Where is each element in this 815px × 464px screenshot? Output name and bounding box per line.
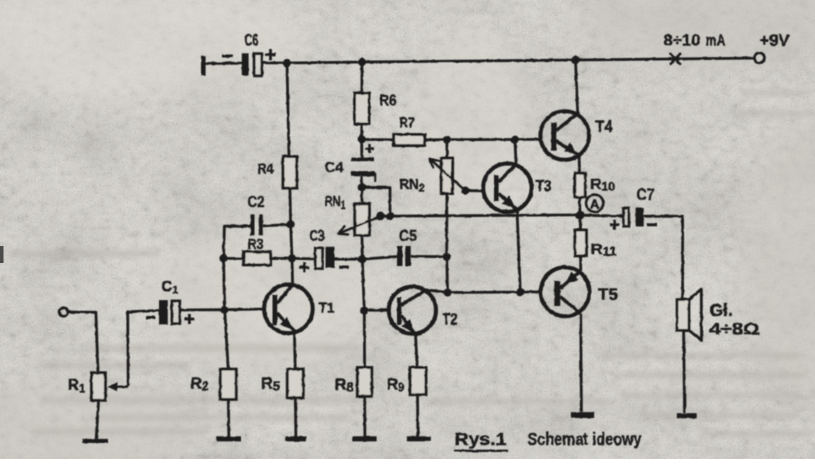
wire: R10 to output node — [578, 197, 581, 215]
svg-text:+9V: +9V — [760, 32, 790, 50]
svg-text:8÷10: 8÷10 — [664, 33, 701, 50]
wire: rail to R6 — [360, 62, 363, 93]
potentiometer R1 — [92, 373, 106, 401]
capacitor C2 — [251, 214, 255, 235]
svg-text:T4: T4 — [596, 117, 613, 136]
capacitor C6 — [242, 53, 249, 75]
svg-text:R3: R3 — [248, 236, 264, 253]
node: RN2 wiper / T3 base — [461, 187, 469, 195]
wire: C2 left leg — [224, 226, 251, 258]
svg-text:T3: T3 — [536, 178, 552, 195]
svg-text:C7: C7 — [637, 186, 655, 204]
wire: T1 base — [225, 308, 265, 312]
wire: T2 base — [364, 309, 389, 312]
break mark 8÷10mA — [670, 53, 682, 65]
transistor T4 — [540, 111, 589, 160]
node: rail / R6 — [358, 58, 366, 66]
wire: C1 to T1 base — [180, 308, 225, 311]
svg-text:R4: R4 — [258, 161, 275, 178]
node: T3 collector / T4 base line — [511, 136, 519, 144]
transistor T3 — [483, 164, 531, 212]
wire: T2 collector — [426, 290, 447, 293]
node: R3 left / T1 base leg — [219, 254, 227, 262]
node: rail / R4 — [283, 59, 291, 67]
ground (R8) — [353, 436, 377, 441]
node: T2 base — [360, 306, 368, 314]
capacitor C3 — [315, 248, 322, 269]
wiper of RN2 — [430, 159, 466, 191]
svg-text:R6: R6 — [380, 93, 397, 110]
speaker Gł. 4÷8Ω — [677, 300, 689, 331]
wire: rail to T4 collector — [576, 60, 578, 114]
node: RN1 wiper / feedback line — [376, 212, 384, 220]
svg-text:Schemat ideowy: Schemat ideowy — [528, 429, 642, 449]
node: C5 / RN2 leg — [443, 253, 451, 261]
terminal +9V — [754, 53, 764, 63]
svg-text:4÷8Ω: 4÷8Ω — [710, 320, 760, 339]
resistor R3 — [244, 252, 271, 265]
svg-text:C5: C5 — [399, 228, 417, 245]
capacitor C4 — [360, 139, 363, 157]
wire: rail to R4 — [287, 63, 289, 157]
node: T3 emitter / T5 base line — [516, 288, 524, 296]
wire: speaker to ground — [684, 330, 685, 413]
resistor R4 — [283, 157, 297, 189]
wire: input to R1 — [68, 312, 98, 373]
ground (R1) — [82, 439, 108, 443]
wiper of RN1 — [339, 216, 381, 233]
node: C3 / RN1 / C5 / T2 base — [358, 255, 366, 263]
wire: C3 right leg — [335, 258, 363, 261]
terminal: input — [59, 308, 68, 317]
node: C4 bottom / RN1 top — [358, 183, 366, 191]
scan artifact left edge — [0, 246, 4, 263]
terminal: supply rail left end — [201, 56, 206, 76]
wire: R8 to ground — [363, 396, 366, 436]
wire: C3 left leg — [292, 257, 316, 260]
wire: node to RN1 — [360, 187, 363, 203]
wire: T3 emitter down — [517, 209, 520, 292]
svg-text:T5: T5 — [598, 285, 618, 304]
wire: T3 collector — [515, 140, 516, 165]
wire: output node to C7 — [580, 214, 624, 218]
wire: C4 node stub to feedback line — [362, 187, 390, 216]
capacitor C1 — [159, 300, 168, 324]
wire: R3 left leg — [224, 257, 244, 260]
wire: T4 emitter to R10 — [578, 155, 581, 173]
wire: R7 to RN2 top node — [425, 138, 447, 141]
wire: T4 base line — [447, 138, 541, 141]
resistor R8 — [357, 368, 371, 397]
wire: C5 right leg — [411, 255, 447, 258]
wire: rail left to C6 — [204, 62, 242, 65]
wiper of R1 — [112, 386, 128, 388]
node: stub / feedback line — [386, 212, 394, 220]
svg-text:R7: R7 — [400, 115, 415, 132]
svg-text:C2: C2 — [248, 194, 265, 211]
wire: R6 to node R7/C4 — [360, 124, 363, 139]
resistor R7 — [394, 135, 425, 146]
wire: R1 to ground — [96, 400, 98, 439]
wire: left column to R2 — [224, 258, 229, 369]
node: T2 collector / T5 base line — [444, 288, 452, 296]
wire: RN2 down to C5 node and T5 base line — [445, 194, 449, 293]
wire: T5 collector to ground — [579, 314, 583, 412]
ground (R5) — [286, 436, 307, 441]
svg-text:T1: T1 — [319, 300, 335, 317]
wire: R4 to T1 collector — [290, 188, 293, 285]
wire: R2 to ground — [227, 399, 230, 436]
wire: feedback line to output node — [380, 215, 580, 216]
resistor R10 — [575, 173, 585, 197]
wire: RN1 to C3 node — [361, 235, 364, 259]
wire: R3 right leg — [271, 257, 292, 260]
resistor R6 — [355, 93, 370, 124]
ground (R9) — [407, 436, 431, 441]
svg-text:C4: C4 — [325, 159, 345, 176]
wire: output node to R11 — [579, 215, 582, 230]
capacitor C5 — [397, 246, 403, 266]
wire: T2 emitter to R9 — [416, 335, 418, 368]
transistor T5 (PNP) — [541, 267, 590, 316]
transistor T1 — [264, 285, 313, 334]
node: T1 base / C1 / R2 — [221, 306, 229, 314]
svg-text:Rys.1: Rys.1 — [455, 429, 507, 449]
resistor R9 — [410, 368, 426, 395]
wire: C7 to speaker — [644, 216, 683, 300]
potentiometer RN1 — [355, 204, 370, 236]
svg-text:Gł.: Gł. — [710, 300, 733, 320]
wire: node to R7 — [362, 138, 394, 141]
svg-text:mA: mA — [706, 33, 726, 50]
wire: T1 emitter to R5 — [293, 331, 297, 369]
wire: T5 base line — [448, 290, 541, 293]
wire: node to RN2 — [445, 140, 448, 158]
ground (R2) — [216, 436, 241, 441]
resistor R5 — [287, 369, 303, 398]
svg-text:T2: T2 — [443, 312, 458, 329]
ground (speaker) — [677, 413, 697, 418]
wire: C5 left leg — [362, 257, 397, 260]
transistor T2 — [389, 287, 436, 334]
capacitor C7 — [623, 208, 629, 227]
ground (T5) — [571, 412, 594, 418]
resistor R2 — [220, 369, 236, 399]
svg-text:A: A — [590, 196, 600, 211]
node: R3 / C3 / R4 line — [288, 254, 296, 262]
wire: T3 base — [465, 189, 483, 192]
node: R6/R7/C4 — [358, 135, 366, 143]
resistor R11 — [575, 230, 587, 256]
svg-text:C3: C3 — [310, 228, 325, 245]
wire: R11 to T5 emitter — [579, 256, 582, 271]
wire: R5 to ground — [294, 398, 297, 437]
potentiometer RN2 — [441, 158, 452, 193]
node: rail / T4 collector — [571, 56, 579, 64]
meter point A — [586, 195, 603, 212]
svg-text:C6: C6 — [245, 31, 259, 49]
wire: +9V supply rail — [262, 58, 754, 63]
wire: R1 wiper to C1 — [128, 311, 160, 387]
wire: C2 right leg — [263, 225, 291, 226]
node: output (R10/R11/C7) — [576, 211, 585, 220]
wire: R9 to ground — [416, 395, 419, 437]
wire: T2 base column to R8 — [362, 259, 364, 367]
node: C2 / R4 line — [287, 220, 295, 228]
node: R7 / RN2 / T4 base line — [443, 136, 451, 144]
